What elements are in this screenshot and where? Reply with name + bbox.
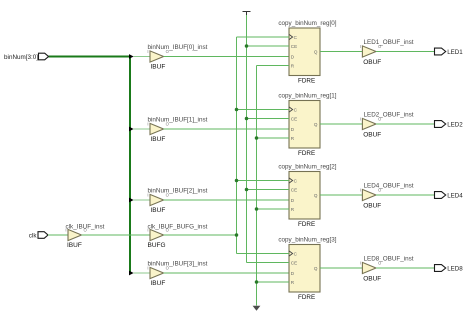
svg-text:copy_binNum_reg[0]: copy_binNum_reg[0] <box>278 20 336 27</box>
svg-text:clk_IBUF_BUFG_inst: clk_IBUF_BUFG_inst <box>148 223 208 230</box>
svg-text:OBUF: OBUF <box>363 59 381 66</box>
svg-text:Q: Q <box>314 122 318 127</box>
svg-text:binNum_IBUF[1]_inst: binNum_IBUF[1]_inst <box>148 117 208 124</box>
svg-text:IBUF: IBUF <box>151 280 166 287</box>
svg-text:Q: Q <box>314 193 318 198</box>
svg-text:Q: Q <box>314 266 318 271</box>
svg-text:LED1_OBUF_inst: LED1_OBUF_inst <box>364 39 414 46</box>
svg-text:CE: CE <box>291 261 297 266</box>
svg-text:FDRE: FDRE <box>298 221 315 228</box>
svg-text:binNum[3:0]: binNum[3:0] <box>4 54 38 61</box>
svg-text:IBUF: IBUF <box>151 64 166 71</box>
svg-text:IBUF: IBUF <box>67 242 82 249</box>
svg-text:copy_binNum_reg[2]: copy_binNum_reg[2] <box>278 164 336 171</box>
svg-text:FDRE: FDRE <box>298 294 315 301</box>
svg-text:IBUF: IBUF <box>151 207 166 214</box>
svg-text:I: I <box>360 44 361 49</box>
svg-text:copy_binNum_reg[3]: copy_binNum_reg[3] <box>278 237 336 244</box>
svg-text:LED4_OBUF_inst: LED4_OBUF_inst <box>364 182 414 189</box>
svg-text:binNum_IBUF[0]_inst: binNum_IBUF[0]_inst <box>148 44 208 51</box>
svg-text:I: I <box>360 187 361 192</box>
svg-text:FDRE: FDRE <box>298 77 315 84</box>
svg-text:CE: CE <box>291 44 297 49</box>
svg-text:LED2: LED2 <box>447 121 463 128</box>
svg-text:BUFG: BUFG <box>148 242 166 249</box>
svg-text:I: I <box>360 116 361 121</box>
svg-text:clk: clk <box>29 233 38 240</box>
svg-text:binNum_IBUF[3]_inst: binNum_IBUF[3]_inst <box>148 261 208 268</box>
svg-text:OBUF: OBUF <box>363 202 381 209</box>
svg-text:LED8_OBUF_inst: LED8_OBUF_inst <box>364 255 414 262</box>
svg-text:LED1: LED1 <box>447 49 463 56</box>
svg-text:FDRE: FDRE <box>298 150 315 157</box>
svg-text:OBUF: OBUF <box>363 131 381 138</box>
svg-text:IBUF: IBUF <box>151 136 166 143</box>
svg-text:LED2_OBUF_inst: LED2_OBUF_inst <box>364 111 414 118</box>
svg-text:OBUF: OBUF <box>363 275 381 282</box>
svg-text:LED4: LED4 <box>447 192 463 199</box>
svg-text:copy_binNum_reg[1]: copy_binNum_reg[1] <box>278 93 336 100</box>
svg-text:Q: Q <box>314 50 318 55</box>
svg-text:CE: CE <box>291 188 297 193</box>
svg-text:binNum_IBUF[2]_inst: binNum_IBUF[2]_inst <box>148 188 208 195</box>
svg-text:CE: CE <box>291 117 297 122</box>
svg-text:clk_IBUF_inst: clk_IBUF_inst <box>66 223 105 230</box>
svg-text:I: I <box>360 260 361 265</box>
svg-text:LED8: LED8 <box>447 265 463 272</box>
